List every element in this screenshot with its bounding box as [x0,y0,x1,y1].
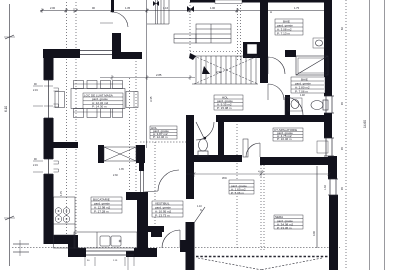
terrace hip diagonal left [198,258,262,270]
wall wc-ct divider [218,122,224,160]
entry door jamb [111,0,114,12]
svg-text:2.19: 2.19 [33,89,38,92]
wall partition stub [139,163,144,171]
svg-text:4.15: 4.15 [258,170,264,174]
right page vertical lines [369,0,371,270]
wall kitchen wardrobe flank right [136,145,145,163]
wall sera west [186,222,195,270]
svg-text:14.60: 14.60 [363,120,367,128]
svg-text:4.75: 4.75 [60,191,63,196]
door baie arc [268,57,285,74]
wall left upper [44,49,54,80]
svg-text:WC: WC [222,176,228,180]
svg-text:2.85: 2.85 [156,73,162,77]
door vestibul-sera arc [162,230,180,248]
wall sera north [260,157,330,165]
label hol2 [150,126,177,139]
dashed passage line [140,141,188,143]
wall baie south right [285,50,296,57]
label wc [222,176,254,195]
svg-text:P: 5.06 m: P: 5.06 m [231,191,244,195]
door hol-east arc [268,84,284,100]
label ct-spalatorie [273,128,303,141]
svg-text:2.90: 2.90 [216,70,222,74]
wall baie south left [262,51,268,57]
wall vestibul closet v [151,230,162,237]
svg-text:N: N [200,209,202,212]
stair diagonal dashed [194,56,258,84]
kitchen counter bottom [74,232,137,248]
wall west corridor lower [186,152,194,199]
label baie top [275,19,303,35]
label sera [274,215,303,230]
label top cut box [215,0,242,4]
top dim texts [50,6,300,14]
axis dotted table right [129,78,131,192]
wardrobe X box [104,147,136,161]
door vestibul entry arc [158,170,179,191]
dim line wc horizontal [186,173,330,175]
svg-text:3.35: 3.35 [149,96,153,102]
small dim texts [33,73,327,262]
stove burners [55,208,62,215]
svg-text:P: 7.13 m: P: 7.13 m [277,31,290,35]
chairs top row [74,81,84,89]
dim line hall horizontal [100,77,195,79]
svg-text:1.75: 1.75 [294,6,300,10]
wall top-left horizontal [43,49,80,58]
svg-text:P: 17.28 m: P: 17.28 m [94,209,109,213]
axis dashed vertical hall [189,2,191,52]
wall stair step v [68,239,78,254]
sink [100,236,110,246]
wall kitchen wardrobe flank left [98,145,104,163]
wall stair step h1 [44,235,79,244]
flue box [243,42,262,58]
window left lower [48,159,50,174]
window kitchen bottom [86,250,134,252]
svg-text:P: 15.08 m: P: 15.08 m [217,106,232,110]
door entry top arc [112,12,128,27]
bowtie mark 2 [187,6,194,12]
right dotted axis [345,0,347,270]
svg-text:P: 23.36 m: P: 23.36 m [277,226,292,230]
axis dashed verticals left [66,2,68,235]
label vestibul [152,201,183,217]
wall right mid [328,156,337,179]
svg-text:P: 14.30 m: P: 14.30 m [92,105,107,109]
wall left lower [44,174,54,244]
door corridor-vestibul leaf [194,207,205,223]
wall left mid [44,118,54,159]
left page dimension line [4,4,15,266]
wall L horizontal [112,52,142,59]
svg-text:4.90: 4.90 [312,230,316,236]
partition vestibul double line [140,171,142,192]
top edge wall strip [190,0,332,3]
wall stub dining [53,142,78,148]
svg-text:A: A [270,10,272,14]
svg-text:P: 7.06 m: P: 7.06 m [295,89,308,93]
leader lines bottom left [13,243,29,245]
axis dashed verticals sera [260,165,262,250]
svg-text:1.10: 1.10 [197,205,202,208]
label hol [214,95,243,110]
toilet wc [199,139,208,151]
sera column line [316,166,318,248]
terrace dashed line light [12,247,340,249]
wall vestibul west [137,192,148,257]
dim window left upper ticks [33,85,43,87]
label bucatarie [91,197,122,213]
wall vestibul closet h [144,226,164,232]
wall jamb terasa [180,240,186,252]
axis dotted vestibul [154,142,156,226]
wall kitchen bottom [134,248,157,257]
window top wall [80,50,112,52]
window left upper [48,80,50,118]
wall right lower [329,195,338,270]
wall vestibul stub left [126,192,137,200]
hall dashed horizontal [190,51,243,53]
top dimension line [40,8,332,13]
wall L vertical [112,33,121,59]
wall stair step h2 [68,248,86,257]
door ct leaf rect [243,139,248,157]
svg-text:1.90: 1.90 [210,6,216,10]
axis dashed vertical center [236,118,238,250]
svg-text:2.19: 2.19 [33,164,38,167]
axis dotted corridor [135,55,137,192]
svg-text:P: 12.46 m: P: 12.46 m [153,135,168,139]
dim window bottom ticks [84,257,86,266]
toilet bath2 [311,101,323,110]
svg-text:1.35: 1.35 [125,6,131,10]
label baie 2 [291,77,325,93]
kitchen counter left [54,197,76,248]
stair arrow head [202,66,210,74]
wall hol south [216,115,330,122]
window right 3 [329,179,331,195]
label loc de luat masa [83,93,123,109]
svg-text:P: 13.73 m: P: 13.73 m [155,213,170,217]
wall right upper b [324,113,332,138]
baie sink [313,38,325,48]
sink bath2 [288,98,302,111]
svg-text:6.10: 6.10 [4,106,8,112]
bowtie mark 1 [153,1,159,6]
terrace dashed line bold [196,256,330,258]
wall hol east [260,0,268,83]
svg-text:P: 10.46 m: P: 10.46 m [277,137,292,141]
chair right [126,92,138,108]
wall vestibul stub bottom [126,251,137,257]
chair left [55,92,65,108]
wall west corridor upper [186,115,194,152]
stair upper landing rect [196,24,231,43]
ct washing machine [317,141,328,153]
svg-text:2.30: 2.30 [113,174,118,177]
door wc arc [196,122,214,140]
door bath2 arc [285,97,303,115]
right small window dim texts [341,27,344,190]
terrace hip diagonal right [260,258,322,270]
window right 2 [325,138,327,156]
window right 1 [325,96,327,113]
dining table [71,89,125,109]
chairs bottom row [74,109,84,118]
svg-text:1.30: 1.30 [324,185,327,190]
wall wc south [189,155,242,162]
door ct arc [246,143,260,157]
svg-text:1.35: 1.35 [119,168,124,171]
flue inner white [247,44,257,54]
newel black diamond [189,53,196,60]
svg-text:2.00: 2.00 [50,6,56,10]
wall right upper a [324,0,332,96]
wall bath2 spur [285,95,290,120]
window sill marks left [54,88,59,172]
axis dotted stairs top [237,2,239,62]
svg-text:1.48: 1.48 [300,94,305,97]
stair treads [195,56,197,84]
